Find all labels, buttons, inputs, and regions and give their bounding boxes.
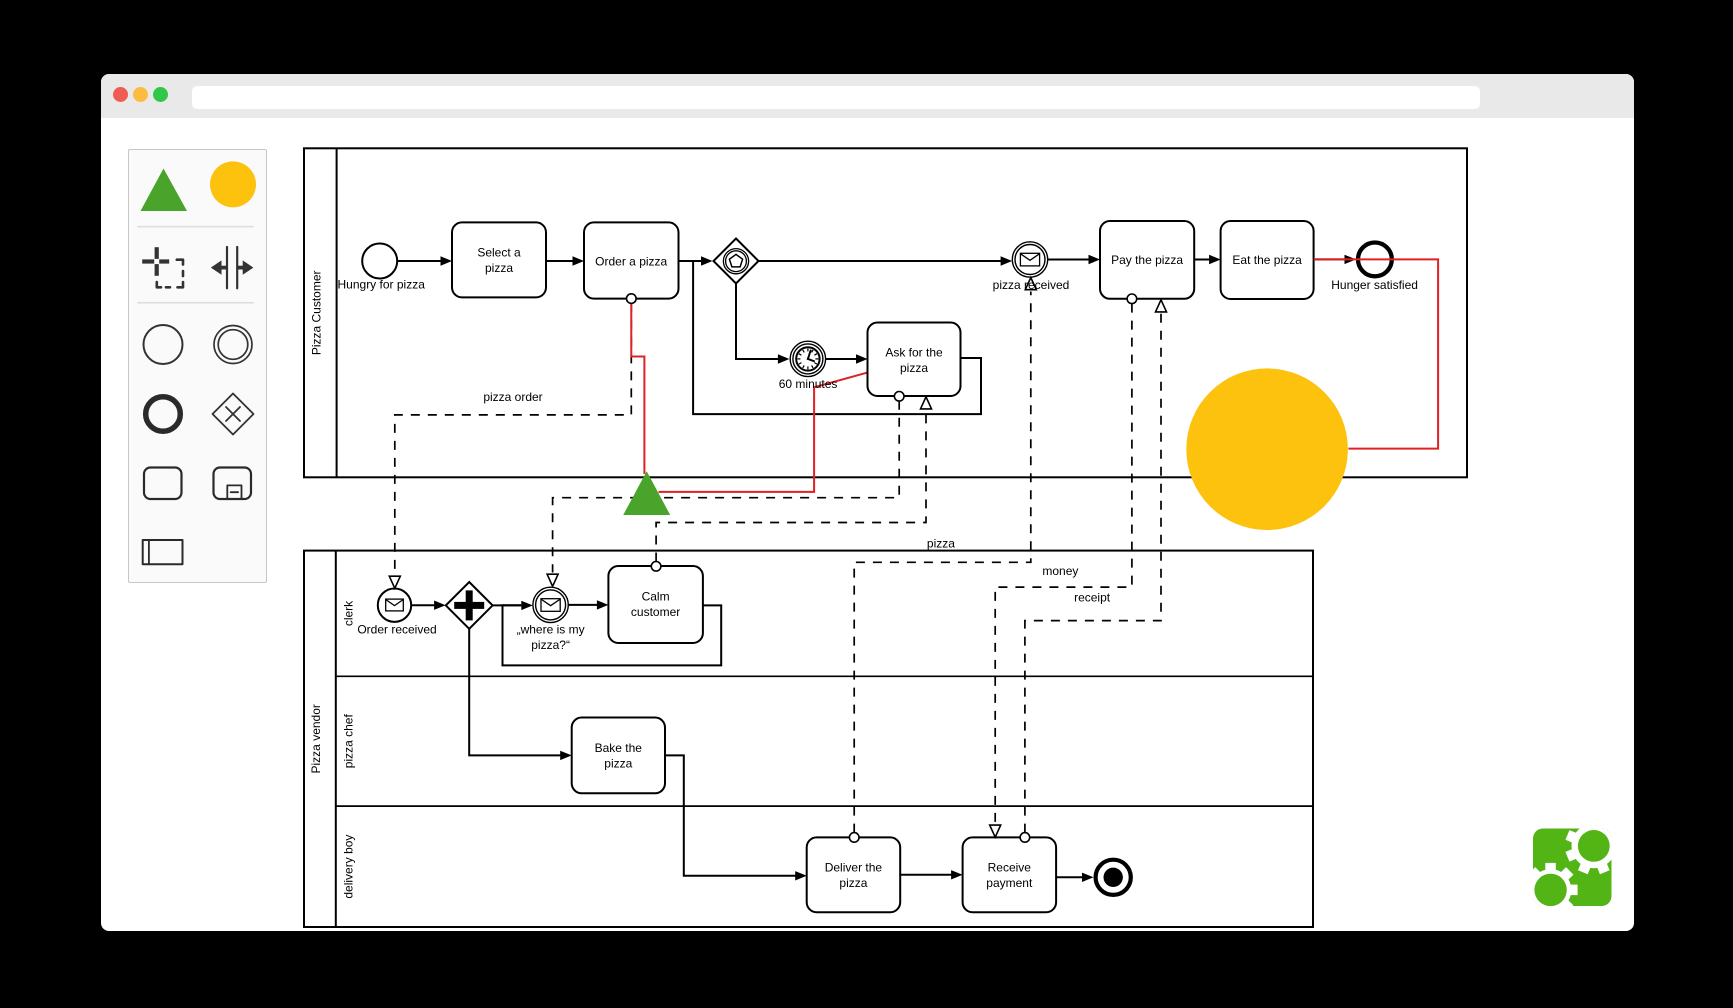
svg-text:Order a pizza: Order a pizza [595,254,667,268]
task Ask for the pizza [868,323,961,397]
wire sequence flow Bake the pizza to Deliver the pizza [665,755,796,875]
wire sequence flow start to Select a pizza [397,260,441,262]
svg-text:Hungry for pizza: Hungry for pizza [338,278,426,292]
svg-text:pizza: pizza [900,361,928,375]
svg-text:Bake the: Bake the [595,741,643,755]
svg-text:Pay the pizza: Pay the pizza [1111,253,1183,267]
svg-text:pizza received: pizza received [993,278,1070,292]
svg-text:pizza: pizza [604,757,632,771]
palette participant icon [143,540,183,564]
wire red connection Order a pizza to green triangle [631,299,644,474]
svg-text:pizza order: pizza order [483,390,542,404]
svg-text:pizza: pizza [927,537,955,551]
task Deliver the pizza [807,837,901,912]
svg-text:Hunger satisfied: Hunger satisfied [1331,278,1418,292]
node custom yellow circle [1186,368,1348,530]
wire sequence flow pizza received to Pay the pizza [1048,259,1089,261]
svg-text:customer: customer [631,605,680,619]
task Eat the pizza [1221,221,1314,299]
pool Pizza Customer [304,148,1467,477]
wire message flow receipt Receive payment to Pay [1025,314,1161,833]
palette separator 2 [138,302,253,304]
wire message flow pizza Deliver to pizza received [854,292,1031,833]
svg-text:60 minutes: 60 minutes [779,377,838,391]
wire sequence flow Deliver the pizza to Receive payment [900,874,951,876]
node message start circle money at Pay the pizza [1127,294,1137,304]
task Bake the pizza [572,718,665,794]
wire sequence flow Order a pizza to event gateway [679,260,702,262]
wire red connection green triangle to Ask for the pizza [659,373,867,492]
node start event Hungry for pizza [362,244,397,279]
palette subprocess icon [214,468,252,500]
node message open arrow money into Receive payment [990,825,1001,837]
palette task icon [144,468,182,500]
palette gateway icon [213,394,254,435]
svg-text:pizza?“: pizza?“ [531,638,570,652]
lane pizza chef [336,805,1313,807]
svg-text:pizza: pizza [839,876,867,890]
wire sequence flow where is my pizza to Calm customer [568,604,597,606]
wire sequence flow parallel gateway to Bake the pizza [469,629,561,756]
palette separator 1 [138,226,253,228]
svg-text:„where is my: „where is my [517,623,585,637]
wire message flow pizza order [395,303,632,574]
node intermediate message event where is my pizza [533,587,568,622]
node message start event Order received [378,589,411,622]
node intermediate message event pizza received [1012,242,1047,277]
palette end event icon [146,397,181,432]
svg-text:Ask for the: Ask for the [885,346,943,360]
wire sequence flow Receive payment to end [1056,876,1082,878]
wire sequence flow event gateway to 60 minutes timer [736,284,779,360]
wire sequence flow Order received to parallel gateway [411,604,434,606]
task Calm customer [608,566,703,643]
wire red connection Eat the pizza to yellow circle [1314,259,1438,448]
wire sequence flow timer to Ask for the pizza [826,358,857,360]
task Select a pizza [452,222,546,297]
svg-text:clerk: clerk [341,600,355,626]
svg-text:pizza chef: pizza chef [341,714,355,769]
gateway event-based [714,239,759,284]
wire sequence flow Select a pizza to Order a pizza [546,260,573,262]
wire sequence flow event gateway to pizza received [759,260,1002,262]
palette custom triangle entry [141,169,188,212]
wire message flow Ask for the pizza to where is my pizza [553,401,900,573]
palette space tool icon [211,247,254,288]
task Pay the pizza [1100,221,1194,299]
node message start circle at Ask for the pizza [894,392,904,402]
gateway parallel [446,582,493,629]
svg-text:Pizza Customer: Pizza Customer [310,270,324,355]
node custom green triangle [623,471,670,515]
node message open arrow into Order received [389,576,400,588]
node message start circle at Calm customer [651,562,661,572]
wire sequence flow loop Calm customer back to where is my pizza [503,605,722,665]
node intermediate timer event 60 minutes [790,341,825,376]
wire message flow money Pay to Receive payment [995,304,1132,824]
svg-text:Deliver the: Deliver the [825,861,883,875]
svg-text:Select a: Select a [477,245,521,259]
wire sequence flow Pay the pizza to Eat the pizza [1194,259,1209,261]
node terminate end event [1096,860,1131,895]
palette lasso tool icon [142,247,169,276]
svg-text:pizza: pizza [485,261,513,275]
palette start event icon [144,325,183,364]
svg-text:delivery boy: delivery boy [341,835,355,899]
palette intermediate event icon [214,326,252,364]
node end event Hunger satisfied [1358,243,1392,277]
svg-text:Order received: Order received [357,623,436,637]
svg-text:Eat the pizza: Eat the pizza [1232,253,1302,267]
node message start circle at Order a pizza [627,294,637,304]
node message start circle receipt at Receive payment [1020,833,1030,843]
svg-text:Pizza vendor: Pizza vendor [309,704,323,773]
svg-text:receipt: receipt [1074,590,1111,604]
task Order a pizza [584,222,679,298]
wire sequence flow Eat the pizza to Hunger satisfied [1314,258,1345,260]
wire sequence flow loop Ask for the pizza back to gateway [693,262,981,415]
node message open arrow into where is my pizza [547,574,558,586]
lane clerk [336,675,1313,677]
wire message flow Calm customer to Ask for the pizza [656,411,926,562]
pool Pizza vendor [304,551,1313,927]
wire sequence flow parallel gateway to where is my pizza [493,604,522,606]
task Receive payment [963,837,1057,912]
node message open arrow receipt into Pay the pizza [1156,300,1167,312]
palette custom circle entry [210,161,256,207]
svg-text:Calm: Calm [642,589,670,603]
node message open arrow into Ask for the pizza [921,397,932,409]
node message start circle at Deliver the pizza [849,833,859,843]
node message open arrow into pizza received [1025,278,1036,290]
svg-text:Receive: Receive [988,861,1032,875]
svg-text:payment: payment [986,876,1033,890]
svg-text:money: money [1042,564,1078,578]
